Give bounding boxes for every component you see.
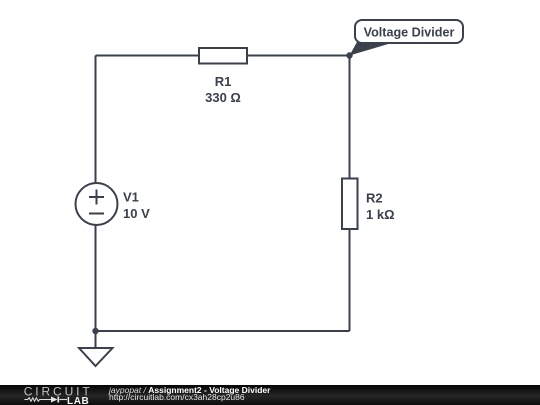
resistor R1 body bbox=[199, 48, 247, 64]
wire bottom rail bbox=[96, 330, 350, 332]
svg-text:330 Ω: 330 Ω bbox=[205, 90, 241, 105]
CircuitLab logo bbox=[20, 384, 120, 405]
V1 plus sign bbox=[89, 190, 104, 205]
credit text line 1 bbox=[109, 386, 270, 395]
voltage source V1 circle bbox=[76, 183, 118, 225]
svg-text:LAB: LAB bbox=[67, 396, 89, 405]
wire right vertical lower (R2 bottom to bottom rail) bbox=[349, 229, 351, 331]
resistor R2 body bbox=[342, 179, 358, 230]
footer bar bbox=[0, 385, 540, 405]
svg-text:R1: R1 bbox=[215, 74, 232, 89]
wire left vertical upper (node to V1 top) bbox=[95, 56, 97, 184]
junction dot bottom-left node bbox=[92, 328, 98, 334]
wire top-right horizontal segment bbox=[247, 55, 350, 57]
credit text line 2 bbox=[109, 393, 245, 402]
node dot at Voltage Divider callout bbox=[346, 52, 352, 58]
svg-text:V1: V1 bbox=[123, 190, 139, 205]
svg-text:R2: R2 bbox=[366, 191, 383, 206]
ground stub wire bbox=[95, 331, 97, 348]
wire top-left horizontal segment bbox=[96, 55, 200, 57]
Voltage Divider flag box bbox=[355, 20, 463, 43]
callout pointer for Voltage Divider flag bbox=[350, 42, 396, 56]
wire left vertical lower (V1 bottom to bottom rail) bbox=[95, 225, 97, 331]
wire right vertical upper (node to R2 top) bbox=[349, 56, 351, 179]
svg-text:1 kΩ: 1 kΩ bbox=[366, 207, 395, 222]
V1 minus sign bbox=[89, 213, 104, 215]
svg-text:10 V: 10 V bbox=[123, 206, 150, 221]
svg-text:Voltage Divider: Voltage Divider bbox=[364, 26, 455, 40]
ground symbol triangle bbox=[79, 348, 113, 366]
